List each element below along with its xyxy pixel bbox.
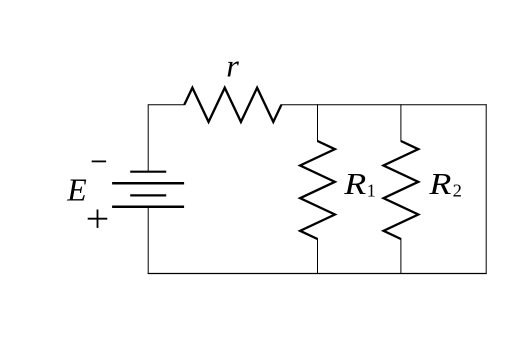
- svg-text:2: 2: [453, 181, 462, 201]
- label R1: [343, 166, 376, 201]
- label R2: [428, 166, 462, 201]
- wire top-left vertical (battery top to top wire): [147, 105, 149, 172]
- wire R1 top stub: [317, 104, 319, 141]
- wire top horizontal right segment: [281, 104, 487, 106]
- wire bottom-left vertical (battery bottom to bottom wire): [147, 207, 149, 274]
- battery plus sign: [88, 210, 108, 228]
- wire R2 top stub: [400, 104, 402, 141]
- wire bottom horizontal: [148, 273, 487, 275]
- wire R2 bottom stub: [400, 239, 402, 274]
- battery minus sign: [92, 160, 106, 162]
- wire top horizontal left segment: [148, 104, 185, 106]
- svg-text:R: R: [343, 166, 366, 201]
- wire right vertical: [485, 104, 487, 274]
- wire R1 bottom stub: [317, 239, 319, 274]
- resistor R2: [384, 141, 419, 239]
- svg-text:1: 1: [367, 181, 376, 201]
- battery E: [112, 172, 184, 207]
- svg-text:r: r: [226, 48, 239, 84]
- resistor r: [184, 88, 281, 122]
- svg-text:R: R: [428, 166, 451, 201]
- resistor R1: [300, 141, 335, 239]
- svg-text:E: E: [66, 172, 87, 208]
